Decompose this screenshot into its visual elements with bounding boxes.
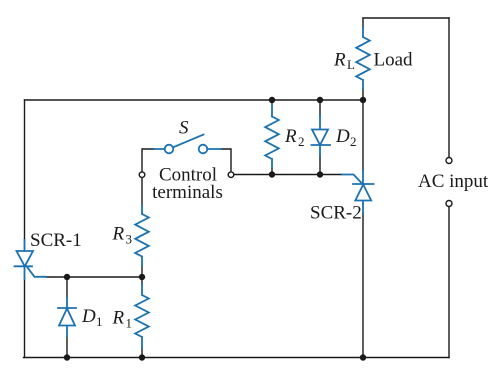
svg-text:2: 2 — [298, 134, 305, 149]
svg-text:R: R — [112, 224, 125, 245]
resistor RL (load) — [356, 28, 370, 89]
node R3/R1 junction — [139, 274, 145, 280]
svg-text:L: L — [347, 57, 355, 72]
wire D1 bottom lead — [66, 337, 68, 358]
svg-text:2: 2 — [350, 134, 357, 149]
switch S blue wire stubs — [154, 148, 221, 150]
wire switch left corner down to control terminal — [142, 149, 154, 172]
wire R2 bottom lead — [271, 168, 273, 175]
svg-text:SCR-1: SCR-1 — [30, 230, 82, 251]
AC input top terminal — [446, 158, 452, 164]
wire D2 top lead — [319, 100, 321, 115]
wire D2 bottom lead — [319, 156, 321, 175]
svg-text:S: S — [179, 118, 189, 139]
node load bottom / SCR-2 anode — [360, 97, 366, 103]
node D2 bottom — [317, 171, 323, 177]
svg-text:1: 1 — [126, 316, 133, 331]
control terminal left circle — [139, 172, 145, 178]
wire control terminal left down to R3 — [141, 178, 143, 205]
wire bottom rail — [24, 357, 450, 359]
svg-text:R: R — [333, 50, 346, 71]
diode D1 (points up, cathode bar top) — [58, 298, 76, 337]
wire D1 top lead — [66, 277, 68, 298]
diode D2 (points down, cathode bar bottom) — [312, 115, 331, 156]
wire load column top black piece — [362, 18, 364, 28]
wire y=277 (SCR-1 gate to R3/R1 junction) — [46, 276, 142, 278]
node D2 top — [317, 97, 323, 103]
wire right rail lower (from AC input bottom terminal) — [448, 207, 450, 358]
svg-text:terminals: terminals — [152, 182, 223, 203]
switch S pole circles — [165, 145, 174, 154]
AC input bottom terminal — [446, 201, 452, 207]
wire right rail upper (to AC input top terminal) — [448, 18, 450, 157]
wire R1 bottom lead — [141, 348, 143, 358]
node R2 bottom — [269, 171, 275, 177]
svg-text:Load: Load — [374, 50, 414, 71]
svg-text:3: 3 — [126, 232, 133, 247]
resistor R1 — [135, 284, 149, 348]
node SCR-2 bottom — [360, 354, 366, 360]
node R2 top — [269, 97, 275, 103]
wire R3 bottom lead — [141, 266, 143, 277]
svg-text:1: 1 — [96, 314, 103, 329]
svg-text:R: R — [112, 308, 125, 329]
svg-text:SCR-2: SCR-2 — [310, 203, 362, 224]
wire mid horizontal bus y=100 — [25, 99, 364, 101]
wire gate bus y=174 (control terminal right to SCR-2 gate) — [234, 174, 342, 176]
svg-text:AC input: AC input — [418, 171, 489, 192]
wire left rail lower (SCR-1 cathode to bottom rail) — [24, 279, 26, 358]
wire R1 top lead — [141, 277, 143, 284]
wire left rail upper (to SCR-1 anode) — [24, 100, 26, 240]
resistor R3 — [135, 205, 149, 266]
svg-text:D: D — [81, 306, 96, 327]
SCR-2 (points up, gate to upper left) — [342, 171, 374, 213]
control terminal right circle — [228, 172, 234, 178]
wire top: load top to right rail — [363, 17, 449, 19]
svg-text:R: R — [284, 126, 297, 147]
resistor R2 — [265, 103, 279, 168]
wire SCR-2 anode column upper — [362, 89, 364, 171]
wire SCR-2 cathode column lower — [362, 213, 364, 358]
wire switch right corner down to control terminal — [221, 149, 231, 172]
node R1 bottom — [139, 354, 145, 360]
switch S blade — [173, 135, 203, 148]
node D1 bottom — [64, 354, 70, 360]
SCR-1 (points down, gate to lower right) — [15, 240, 47, 279]
svg-text:D: D — [335, 126, 350, 147]
node D1 top — [64, 274, 70, 280]
